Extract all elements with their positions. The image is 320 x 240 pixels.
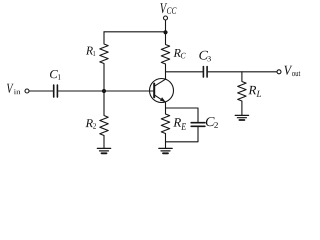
label RL	[248, 86, 261, 97]
node base junction	[102, 89, 106, 93]
wire emitter down	[165, 102, 167, 114]
wire top rail	[104, 31, 166, 33]
power terminal VCC	[164, 16, 168, 32]
capacitor C1	[54, 85, 58, 97]
capacitor C3	[203, 67, 207, 77]
transistor Q1	[150, 79, 174, 103]
label C2	[206, 117, 218, 128]
resistor RE	[161, 114, 169, 148]
resistor RC	[161, 32, 169, 79]
input terminal Vin	[25, 89, 29, 93]
label RC	[174, 49, 186, 58]
resistor R1	[100, 32, 108, 91]
label R2	[86, 119, 96, 128]
output terminal Vout	[277, 70, 281, 74]
ground under R2	[97, 148, 110, 153]
resistor R2	[100, 91, 108, 148]
wire Vin to C1	[29, 90, 53, 92]
wire emitter branch to C2	[166, 108, 199, 123]
wire C2 bottom to emitter ground rail	[166, 127, 199, 142]
label C3	[199, 51, 211, 62]
label C1	[50, 70, 61, 80]
wire C1 to transistor base	[58, 90, 154, 92]
label R1	[86, 47, 95, 56]
ground under emitter	[159, 148, 172, 153]
ground under RL	[235, 115, 248, 120]
node VCC junction	[163, 30, 167, 34]
wire collector node to C3	[166, 71, 204, 73]
label VCC	[160, 3, 176, 14]
label Vout	[284, 66, 300, 76]
label Vin	[7, 84, 21, 94]
wire C3 to output	[208, 71, 277, 73]
resistor RL	[238, 72, 246, 116]
label RE	[173, 118, 186, 130]
capacitor C2	[191, 123, 205, 127]
